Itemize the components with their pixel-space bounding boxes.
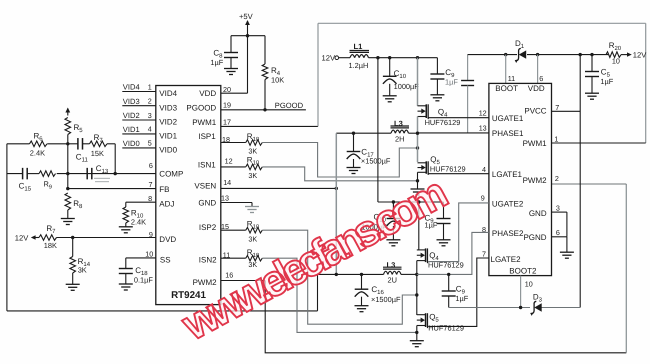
svg-text:4: 4 [148,125,152,134]
wire C10b to ground [392,226,394,240]
svg-text:UGATE2: UGATE2 [492,200,524,209]
capacitor C16 [355,288,369,290]
wire left feedback frame vertical [6,144,8,311]
svg-text:2.4K: 2.4K [30,148,45,157]
resistor R10 (ADJ) [123,207,129,223]
svg-text:10: 10 [145,249,153,258]
wire +5V vertical to VDD [247,28,249,93]
wire C9a top [436,58,438,74]
capacitor bootstrap C9 (phase2) [442,290,456,292]
wire PWM1 pin 17 [221,125,318,127]
wire GND pin stub [552,211,567,213]
wire C5 to ground [591,77,593,94]
node R6/R5 junction [66,142,69,145]
wire R6 row [7,143,30,145]
node phase1 L3 junction [416,132,419,135]
resistor R4 [262,64,268,80]
svg-text:LGATE1: LGATE1 [492,170,523,179]
wire VOUT2 line [318,273,384,275]
wire LGATE1 lead [428,173,489,175]
svg-text:19: 19 [223,101,231,110]
wire PWM2 route bottom [265,281,626,353]
terminal arrow 12V [34,237,40,239]
node R7/COMP junction [114,172,117,175]
wire C9b top [443,202,445,219]
wire ISN1 route [262,167,417,181]
svg-text:3K: 3K [248,171,257,180]
node VSEN at VOUT [335,187,338,190]
node PVCC riser junction [579,53,582,56]
svg-text:PHASE1: PHASE1 [492,129,524,138]
wire PWM2 pin 16 [221,280,265,282]
op-amp U1 RT9241 box [156,86,221,305]
svg-text:17: 17 [223,118,231,127]
wire C16 top [361,274,363,289]
resistor R5 [65,118,71,135]
wire C18 to ground [125,274,127,285]
svg-text:5: 5 [148,139,152,148]
node R14 junction [71,236,74,239]
wire BOOT stub [505,55,507,84]
ground below C10b [386,239,400,241]
node phase2 L3 junction [415,273,418,276]
node VOUT vertical junction [335,273,338,276]
svg-text:ISP1: ISP1 [198,132,216,141]
svg-text:VID4: VID4 [123,83,140,92]
svg-text:12V: 12V [633,51,647,60]
wire boot cap1 to PHASE1 [467,86,469,133]
wire PGND to ground [566,237,568,252]
wire to R14 [72,238,74,257]
wire frame left vertical [317,23,319,126]
node BOOT stub junction [504,53,507,56]
node rail phase1 drain [416,56,419,59]
svg-text:PWM1: PWM1 [523,139,548,148]
wire phase1 column mid [417,117,419,163]
wire R7 down to COMP [114,144,116,174]
wire R10 to ground [125,223,127,227]
wire ISN1 pin 12 [221,166,246,168]
resistor R9 [39,171,56,177]
svg-text:3: 3 [148,111,152,120]
svg-text:13: 13 [221,193,229,202]
svg-text:VID3: VID3 [159,103,177,112]
ground below C8 [224,68,238,70]
terminal arrow above R5 [67,109,69,116]
svg-text:1.2µH: 1.2µH [349,61,369,70]
svg-text:LGATE2: LGATE2 [491,255,522,264]
wire phase1 column top [417,58,419,106]
terminal arrow 12V right [627,52,632,56]
svg-text:ISP2: ISP2 [199,223,217,232]
wire VOUT vertical [335,133,337,274]
wire pin 3 VID2 stub [122,119,156,121]
wire VSEN pin 14 [221,187,336,189]
resistor R6 [30,141,48,147]
capacitor C18 [119,268,133,270]
svg-text:FB: FB [159,185,169,194]
op-amp U2 driver box [489,83,552,275]
svg-text:GND: GND [198,199,216,208]
ground below C9b [437,239,451,241]
capacitor C13 [86,168,88,180]
svg-text:10K: 10K [271,75,284,84]
capacitor bootstrap C (phase1) [461,80,474,82]
wire SS to C18 [126,257,156,259]
wire PGND pin stub [552,236,567,238]
wire C17 to ground [353,159,355,168]
svg-text:BOOT: BOOT [495,84,518,93]
terminal +5V arrow [247,21,249,28]
node phase2 drain junction [417,200,420,203]
diode D3 [534,303,541,311]
wire C9b to ground [443,224,445,240]
wire pin 5 VID0 stub [122,147,156,149]
svg-text:3: 3 [556,203,560,212]
svg-text:L3: L3 [394,119,403,128]
svg-text:4: 4 [482,165,486,174]
svg-text:VID0: VID0 [123,139,140,148]
node ISN1 at Q5 source [416,179,419,182]
resistor R8 [65,193,71,210]
node C17 junction [352,132,355,135]
wire pin 1 VID4 stub [122,91,156,93]
svg-text:1000µF: 1000µF [394,82,420,91]
svg-text:13: 13 [479,124,487,133]
capacitor C9 (phase1) [430,73,444,75]
wire VDD stub [537,55,539,84]
wire frame right vertical [645,23,647,143]
resistor R7 15K [90,141,108,147]
svg-text:×1500µF: ×1500µF [361,156,391,165]
svg-text:3K: 3K [248,147,257,156]
wire R7b to DVD [57,237,156,239]
wire ISN2 route [262,258,416,332]
wire C8 top [230,36,232,53]
svg-text:1µF: 1µF [600,77,613,86]
wire ISP2 pin 15 [221,229,246,231]
svg-text:HUF76129: HUF76129 [430,164,466,173]
transistor Q5 (phase1 low side) [418,162,427,164]
svg-text:1µF: 1µF [210,58,223,67]
resistor R10 ISP1 3K [246,140,262,146]
ground below R8 [61,218,75,220]
svg-text:GND: GND [529,209,547,218]
wire phase2 drain drop [418,202,420,250]
svg-text:15K: 15K [91,149,104,158]
svg-text:L1: L1 [354,42,364,51]
ground below R14 [66,283,80,285]
svg-text:8: 8 [148,194,152,203]
ground below C10a [383,95,397,97]
svg-text:10: 10 [525,280,533,289]
value C13 (blurred) [94,178,110,181]
wire D1/VDD line [468,54,517,56]
capacitor C11 [77,138,79,150]
transistor Q4 (phase1 high side) [418,105,427,107]
wire C16 to ground [361,297,363,306]
wire PVCC pin [552,110,581,112]
node BOOT2 junction [519,306,522,309]
inductor L3 (phase1) [391,130,395,133]
wire Q5a source to ground [417,172,419,189]
svg-text:×1500µF: ×1500µF [371,295,401,304]
wire R20 to 12V terminal [621,54,628,56]
wire R14 to ground [72,273,74,284]
wire R4 top [264,36,266,64]
wire feedback frame riser to VOUT [317,274,319,311]
svg-text:PWM2: PWM2 [523,176,548,185]
wire 12V rail [369,57,438,59]
wire driver PWM2 pin 2 [552,183,627,185]
wire PWM2 route riser [625,184,627,353]
wire R4 bottom to PGOOD [264,80,266,110]
svg-text:2U: 2U [388,276,397,285]
svg-text:ISN2: ISN2 [199,256,217,265]
resistor R10 ISP2 3K [246,227,262,233]
node ISP1 at phase1 [416,146,419,149]
svg-text:12V: 12V [322,54,336,63]
node VDD stub junction [536,53,539,56]
svg-text:6: 6 [149,161,153,170]
svg-text:PWM1: PWM1 [192,118,217,127]
svg-text:PGOOD: PGOOD [275,101,304,110]
svg-text:ADJ: ADJ [159,199,174,208]
wire phase2 12V feed [377,58,379,202]
ground below C5 [585,92,599,94]
wire ISP1 pin 18 [221,142,246,144]
node C10b junction [392,200,395,203]
node C16 junction [360,273,363,276]
svg-text:2: 2 [555,174,559,183]
wire driver PWM1 pin 1 [552,142,646,144]
wire FB line [68,188,156,190]
wire BOOT2 stub [520,276,522,308]
wire left feedback frame bottom [7,310,318,312]
svg-text:10: 10 [612,56,620,65]
svg-text:3K: 3K [78,265,87,274]
node rail C10 junction [388,56,391,59]
svg-text:ISN1: ISN1 [198,160,216,169]
svg-text:COMP: COMP [159,170,183,179]
wire pin 4 VID1 stub [122,133,156,135]
node FB/R8 junction [66,187,69,190]
svg-text:14: 14 [223,178,231,187]
wire ADJ to R10 [126,201,156,203]
svg-text:11: 11 [508,74,515,83]
wire boot cap1 column [467,55,469,81]
svg-text:VID3: VID3 [123,97,140,106]
wire 12V to L1 [339,57,350,59]
svg-text:SS: SS [160,255,171,264]
svg-text:VID0: VID0 [159,146,177,155]
svg-text:12V: 12V [15,234,29,243]
svg-text:2H: 2H [395,134,404,143]
svg-text:VSEN: VSEN [194,182,216,191]
capacitor C10 (phase2 bulk) [387,218,401,220]
wire PVCC riser [579,55,581,308]
svg-text:12: 12 [225,156,233,165]
wire UGATE2 route [428,203,489,262]
ground below C17 [347,167,361,169]
wire VDD pin 20 [221,92,248,94]
svg-text:3K: 3K [248,234,257,243]
svg-text:VID2: VID2 [123,111,140,120]
node +5V junction [246,34,249,37]
wire C5 top [591,55,593,72]
wire C9a to ground [436,79,438,95]
wire R8 to ground [67,210,69,219]
node R9/C13 junction [66,172,69,175]
svg-text:BOOT2: BOOT2 [509,267,537,276]
node R4/PGOOD junction [263,108,266,111]
svg-text:6: 6 [539,74,543,83]
resistor R14 [70,257,76,274]
node boot cap2 junction [447,273,450,276]
svg-text:DVD: DVD [159,235,176,244]
svg-text:1: 1 [148,82,152,91]
svg-text:18K: 18K [44,241,57,250]
wire VOUT1 line [336,132,391,134]
wire C10b top [392,202,394,219]
svg-text:1µF: 1µF [455,294,468,303]
capacitor C10 (phase1 bulk) [383,75,397,77]
svg-text:VID4: VID4 [159,89,177,98]
wire boot cap2 top [448,274,450,291]
svg-text:VDD: VDD [199,89,216,98]
wire C8 to ground [230,58,232,69]
svg-text:PGND: PGND [523,233,546,242]
svg-text:7: 7 [149,180,153,189]
capacitor C5 [585,71,599,73]
node C5 junction [590,53,593,56]
resistor R20 10 [606,52,621,58]
capacitor C17 [347,151,361,153]
transistor Q4b (phase2 high side) [417,249,426,251]
wire C10a to ground [389,84,391,96]
wire PHASE1 lead [418,132,489,134]
terminal circle 12V [335,56,339,60]
inductor L1 [350,55,355,58]
svg-text:VID1: VID1 [123,125,140,134]
svg-text:VID1: VID1 [159,132,177,141]
svg-text:HUF76129: HUF76129 [428,323,464,332]
wire BOOT2/D3 line [449,307,530,309]
svg-text:9: 9 [149,230,153,239]
svg-text:6: 6 [556,228,560,237]
svg-text:HUF76129: HUF76129 [425,118,461,127]
wire ISP1 route [262,143,417,178]
svg-text:1: 1 [554,135,558,144]
wire UGATE1 lead [428,117,489,119]
wire R5 to COMP line [67,135,69,174]
wire PHASE2 route [417,232,489,274]
ground below Q5b [410,340,424,342]
diode D1 [519,50,526,58]
node ISN2 at Q5b source [415,331,418,334]
ground below C18 [119,283,133,285]
wire GND pin 13 stub [221,202,252,204]
svg-text:0.1µF: 0.1µF [134,275,154,284]
wire +5V tee [231,35,265,37]
svg-text:2.4K: 2.4K [131,217,146,226]
capacitor C15 [22,168,24,180]
ground at GND pin [245,206,259,208]
resistor R7b 18K [39,235,57,241]
svg-text:12: 12 [479,108,487,117]
svg-text:L3: L3 [387,260,396,269]
wire ISP2 route [262,230,416,324]
wire ISN2 pin 11 [221,257,246,259]
inductor L3 (phase2) [384,271,388,274]
resistor R10 ISN2 3K [246,255,262,261]
wire phase2 column mid [416,261,418,315]
wire C10a top [389,58,391,77]
ground below PGND [560,251,574,253]
svg-text:1µF: 1µF [445,78,458,87]
node ISP2 at phase2 [415,293,418,296]
wire C15/R9 row (COMP line) [7,173,23,175]
wire LGATE2 route [428,258,489,326]
wire PGOOD pin 19 [221,109,306,111]
wire frame top [318,22,646,24]
resistor R10 ISN1 3K [246,164,262,170]
ground below C9a [430,94,444,96]
svg-text:UGATE1: UGATE1 [492,114,524,123]
svg-text:VDD: VDD [528,84,545,93]
wire C17 top [353,133,355,151]
svg-text:PVCC: PVCC [524,107,546,116]
wire COMP-FB link [67,174,69,189]
wire boot cap2 to BOOT2 line [448,296,450,308]
capacitor C8 [224,52,238,54]
svg-text:2: 2 [148,97,152,106]
ground below R10 ADJ [119,226,133,228]
ground below C16 [355,305,369,307]
svg-text:9: 9 [481,194,485,203]
svg-text:PGOOD: PGOOD [186,103,216,112]
ground below Q5a [411,188,425,190]
svg-text:7: 7 [482,249,486,258]
svg-text:VID2: VID2 [159,118,177,127]
wire pin 2 VID3 stub [122,105,156,107]
svg-text:PHASE2: PHASE2 [492,229,524,238]
svg-text:+5V: +5V [239,12,254,21]
capacitor C9 (phase2) [437,218,451,220]
wire C11/R7 row [68,143,78,145]
transistor Q5b (phase2 low side) [417,314,426,316]
node rail phase2 feed [376,56,379,59]
wire Q5b source to ground [416,326,418,341]
